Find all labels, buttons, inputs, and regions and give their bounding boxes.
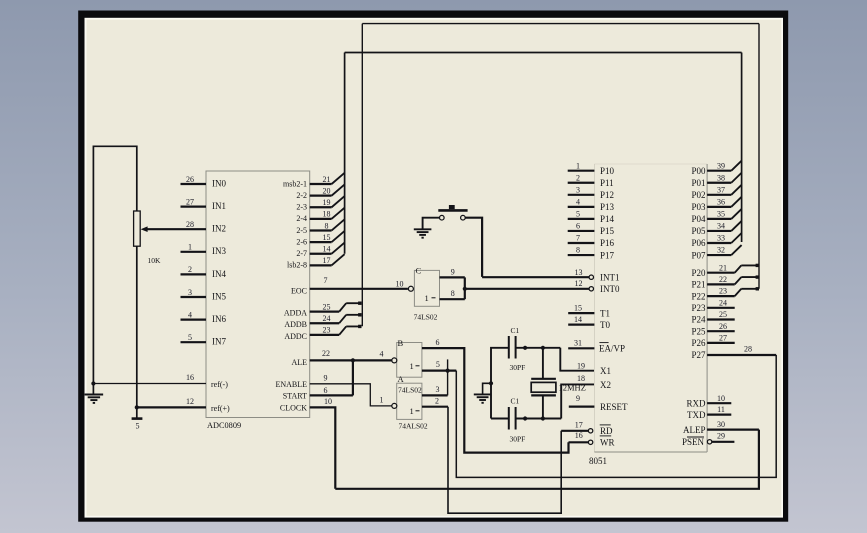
svg-text:1: 1: [425, 293, 429, 303]
svg-text:19: 19: [323, 198, 331, 207]
ADC0809 data pin 8 2-5 with bus entry: [296, 219, 344, 235]
gate U2C input pin 9: [440, 267, 465, 277]
ADC0809 pin 12 ref(+) wire: [137, 397, 230, 413]
svg-text:28: 28: [186, 220, 194, 229]
ADC0809 pin 2 IN4: [181, 265, 227, 279]
svg-text:P20: P20: [691, 268, 706, 278]
8051 pin 8 P17: [568, 246, 615, 261]
svg-text:14: 14: [574, 315, 582, 324]
ground G2 at button: [414, 229, 432, 237]
junction top rail a: [523, 346, 527, 350]
svg-text:P27: P27: [691, 350, 706, 360]
svg-text:RXD: RXD: [686, 398, 706, 408]
svg-text:8: 8: [576, 246, 580, 255]
power +5 bar: [132, 407, 143, 430]
wire gate C inputs tie: [464, 277, 466, 299]
wire pot bottom to ref(+): [136, 246, 138, 407]
schematic sheet white inner edge: [85, 18, 784, 518]
ADC0809 pin 5 IN7: [181, 333, 227, 347]
svg-text:P17: P17: [600, 250, 615, 260]
wire CLOCK to 8051 ALE/P bottom run: [335, 430, 759, 489]
svg-text:2-2: 2-2: [296, 191, 307, 200]
svg-text:IN5: IN5: [212, 291, 226, 301]
junction pin5 stub: [446, 369, 450, 373]
svg-text:39: 39: [717, 161, 725, 170]
svg-text:6: 6: [576, 222, 580, 231]
wire pin2 to RD: [448, 407, 561, 514]
svg-text:5: 5: [576, 210, 580, 219]
svg-text:ADDC: ADDC: [284, 332, 307, 341]
svg-text:P13: P13: [600, 202, 615, 212]
8051 pin 26 P25: [691, 322, 734, 337]
ADC0809 pin 10 CLOCK wire: [280, 397, 335, 489]
junction bottom rail a: [523, 416, 527, 420]
junction ref(+): [135, 405, 139, 409]
svg-text:26: 26: [186, 175, 194, 184]
svg-text:25: 25: [323, 302, 331, 311]
8051 pin 29 PSEN: [682, 431, 734, 447]
svg-text:34: 34: [717, 222, 725, 231]
wire pin5 to P27: [456, 355, 776, 477]
svg-text:36: 36: [717, 197, 725, 206]
svg-text:5: 5: [188, 333, 192, 342]
svg-text:17: 17: [323, 256, 331, 265]
svg-text:P06: P06: [691, 238, 706, 248]
svg-text:EOC: EOC: [291, 287, 307, 296]
8051 pin 31 EA/VP: [568, 339, 625, 354]
svg-text:3: 3: [576, 185, 580, 194]
data bus top rail: [345, 52, 742, 54]
svg-text:P02: P02: [691, 190, 705, 200]
svg-text:30PF: 30PF: [510, 363, 526, 372]
8051 data pin 37 P02 with bus entry: [691, 185, 741, 200]
svg-text:1: 1: [410, 406, 414, 416]
svg-text:2: 2: [435, 397, 439, 406]
svg-text:lsb2-8: lsb2-8: [287, 261, 307, 270]
svg-text:13: 13: [575, 268, 583, 277]
crystal Y1 12MHZ: [531, 379, 586, 396]
8051 pin 16 WR: [569, 431, 615, 448]
8051 pin 28 P27 wire: [691, 345, 776, 361]
svg-text:20: 20: [323, 186, 331, 195]
svg-text:INT0: INT0: [600, 284, 620, 294]
8051 pin 13 INT1: [575, 268, 620, 283]
ADC0809 pin 9 ENABLE wire to gate A output: [275, 374, 391, 406]
svg-text:10K: 10K: [148, 256, 162, 265]
svg-text:T0: T0: [600, 320, 610, 330]
svg-text:8: 8: [325, 221, 329, 230]
svg-text:5: 5: [436, 360, 440, 369]
ADC0809 data pin 18 2-4 with bus entry: [296, 208, 344, 224]
wire button right to INT1: [465, 218, 482, 277]
svg-text:10: 10: [396, 280, 404, 289]
svg-text:33: 33: [717, 234, 725, 243]
svg-text:2: 2: [188, 265, 192, 274]
svg-text:35: 35: [717, 210, 725, 219]
svg-text:P03: P03: [691, 202, 706, 212]
svg-text:TXD: TXD: [687, 410, 706, 420]
wire INT0 to 8051: [465, 288, 589, 290]
svg-text:P07: P07: [691, 250, 706, 260]
svg-text:7: 7: [576, 234, 580, 243]
svg-text:23: 23: [719, 287, 727, 296]
svg-text:23: 23: [323, 326, 331, 335]
ADC0809 address pin 25 ADDA with bus entry: [284, 302, 362, 318]
svg-text:ref(+): ref(+): [211, 404, 230, 413]
wire pot top to ground rail: [93, 146, 136, 394]
svg-text:RESET: RESET: [600, 402, 628, 412]
svg-text:9: 9: [576, 394, 580, 403]
svg-text:WR: WR: [600, 438, 615, 448]
svg-text:27: 27: [719, 334, 727, 343]
8051 pin 24 P23: [691, 298, 734, 313]
svg-text:P05: P05: [691, 226, 706, 236]
8051 data pin 33 P06 with bus entry: [691, 233, 741, 248]
IC U1 ADC0809 body: [206, 171, 310, 418]
svg-text:IN0: IN0: [212, 178, 226, 188]
svg-text:P23: P23: [691, 303, 706, 313]
junction osc ground: [489, 381, 493, 385]
svg-text:IN3: IN3: [212, 246, 226, 256]
svg-text:RD: RD: [600, 426, 613, 436]
wire X1 to 8051: [560, 348, 594, 371]
gate U2B 74LS02 body: [397, 338, 422, 377]
svg-text:18: 18: [323, 210, 331, 219]
potentiometer R1 body: [134, 211, 141, 246]
svg-text:3: 3: [436, 385, 440, 394]
svg-text:21: 21: [323, 175, 331, 184]
svg-text:P16: P16: [600, 238, 615, 248]
svg-text:25: 25: [719, 310, 727, 319]
capacitor C1 bottom 30PF: [509, 397, 526, 444]
junction bottom rail b: [541, 416, 545, 420]
svg-text:14: 14: [323, 245, 331, 254]
svg-text:32: 32: [717, 246, 725, 255]
junction top rail b: [541, 346, 545, 350]
8051 pin 5 P14: [568, 210, 615, 225]
svg-text:ENABLE: ENABLE: [275, 380, 307, 389]
svg-text:7: 7: [324, 276, 328, 285]
ADC0809 address pin 24 ADDB with bus entry: [284, 313, 361, 329]
8051 data pin 34 P05 with bus entry: [691, 221, 741, 236]
svg-text:IN7: IN7: [212, 337, 226, 347]
svg-text:C: C: [416, 266, 422, 276]
gate U2C input pin 8: [440, 289, 465, 299]
svg-text:P12: P12: [600, 190, 614, 200]
svg-text:P11: P11: [600, 178, 614, 188]
svg-text:P10: P10: [600, 166, 615, 176]
svg-text:IN6: IN6: [212, 314, 226, 324]
8051 pin 27 P26: [691, 334, 734, 349]
8051 data pin 39 P00 with bus entry: [691, 161, 741, 176]
svg-text:PSEN: PSEN: [682, 437, 705, 447]
svg-text:P14: P14: [600, 214, 615, 224]
gate U2B input pin 6 wire to WR: [422, 338, 569, 453]
svg-text:1: 1: [188, 243, 192, 252]
svg-text:2-5: 2-5: [296, 226, 307, 235]
svg-text:ADDA: ADDA: [284, 309, 307, 318]
ADC0809 pin 28 IN2: [186, 220, 226, 234]
svg-text:8051: 8051: [589, 456, 607, 466]
svg-text:P24: P24: [691, 315, 706, 325]
address bus left vertical: [361, 24, 363, 327]
svg-text:B: B: [398, 338, 404, 348]
wire INT1 to 8051: [482, 276, 589, 278]
schematic sheet paper: [87, 20, 782, 516]
svg-text:EA/VP: EA/VP: [599, 344, 625, 354]
gate U2A input pin 3: [422, 385, 448, 395]
svg-text:3: 3: [188, 288, 192, 297]
svg-text:6: 6: [324, 386, 328, 395]
svg-text:P01: P01: [691, 178, 705, 188]
svg-text:1: 1: [576, 161, 580, 170]
8051 pin 18 X2: [577, 374, 611, 390]
svg-text:P15: P15: [600, 226, 615, 236]
push button S1: [438, 205, 467, 220]
gate U2A output bubble pin 1: [380, 396, 397, 409]
8051 pin 19 X1: [577, 361, 611, 376]
svg-text:31: 31: [574, 339, 582, 348]
8051 pin 3 P12: [568, 185, 614, 200]
wire osc to ground: [483, 383, 491, 394]
svg-text:10: 10: [717, 394, 725, 403]
wire ALE to START tie: [352, 360, 354, 395]
svg-text:2: 2: [576, 173, 580, 182]
svg-text:9: 9: [451, 267, 455, 276]
ground G1: [85, 395, 104, 403]
8051 pin 25 P24: [691, 310, 734, 325]
svg-text:1: 1: [410, 361, 414, 371]
IC U3 8051 body: [594, 164, 707, 452]
svg-text:X2: X2: [600, 380, 611, 390]
svg-text:CLOCK: CLOCK: [280, 404, 307, 413]
svg-text:10: 10: [324, 397, 332, 406]
capacitor C1 top 30PF: [509, 326, 526, 372]
svg-text:74ALS02: 74ALS02: [399, 422, 428, 431]
ADC0809 data pin 14 2-7 with bus entry: [296, 243, 344, 258]
svg-text:38: 38: [717, 173, 725, 182]
svg-text:12: 12: [186, 397, 194, 406]
svg-text:1: 1: [380, 396, 384, 405]
svg-text:74LS02: 74LS02: [414, 313, 438, 322]
svg-text:X1: X1: [600, 366, 611, 376]
gate U2A label 74ALS02: [399, 422, 428, 431]
ADC0809 data pin 21 msb2-1 with bus entry: [283, 173, 345, 189]
ADC0809 data pin 19 2-3 with bus entry: [296, 196, 344, 212]
junction gate C inputs / INT0: [463, 287, 467, 291]
svg-text:18: 18: [577, 374, 585, 383]
IC U3 label 8051: [589, 456, 607, 466]
gate U2B output bubble pin 4: [380, 350, 397, 363]
schematic sheet black frame: [78, 11, 788, 522]
svg-text:IN4: IN4: [212, 269, 226, 279]
svg-text:16: 16: [186, 373, 194, 382]
8051 pin 6 P15: [568, 222, 615, 237]
8051 pin 21 P20 with bus entry: [691, 263, 759, 278]
gate U2B input pin 5: [422, 360, 456, 371]
ADC0809 pin 4 IN6: [181, 310, 227, 324]
svg-text:16: 16: [575, 431, 583, 440]
svg-text:START: START: [283, 392, 307, 401]
svg-text:msb2-1: msb2-1: [283, 179, 307, 188]
ADC data bus vertical: [344, 53, 346, 254]
svg-text:INT1: INT1: [600, 273, 620, 283]
svg-text:8: 8: [451, 289, 455, 298]
svg-text:5: 5: [136, 422, 140, 431]
svg-text:4: 4: [188, 310, 192, 319]
svg-text:28: 28: [744, 345, 752, 354]
svg-text:2-6: 2-6: [296, 237, 307, 246]
ground G3 at oscillator: [474, 394, 492, 402]
wire button left to ground: [423, 218, 440, 229]
svg-text:30: 30: [717, 420, 725, 429]
wire bottom rail: [491, 418, 561, 420]
gate U2C 74LS02 body: [414, 266, 439, 307]
8051 pin 1 P10: [568, 161, 615, 176]
svg-text:P00: P00: [691, 166, 706, 176]
address bus top rail: [362, 23, 759, 25]
svg-text:6: 6: [436, 338, 440, 347]
svg-text:24: 24: [719, 298, 727, 307]
ADC0809 pin 16 ref(-) wire: [93, 373, 228, 389]
svg-text:15: 15: [323, 233, 331, 242]
ADC0809 pin 3 IN5: [181, 288, 227, 302]
svg-text:P26: P26: [691, 338, 706, 348]
svg-text:C1: C1: [511, 397, 520, 406]
svg-text:IN1: IN1: [212, 201, 226, 211]
8051 pin 2 P11: [568, 173, 614, 188]
IC U1 label ADC0809: [207, 421, 241, 430]
ADC0809 data pin 20 2-2 with bus entry: [296, 184, 344, 200]
wire tie pin5 to pin3 stub: [447, 359, 449, 395]
svg-text:37: 37: [717, 185, 725, 194]
svg-text:ADDB: ADDB: [284, 320, 307, 329]
svg-text:30PF: 30PF: [510, 435, 526, 444]
8051 data pin 38 P01 with bus entry: [691, 173, 741, 188]
svg-text:15: 15: [574, 303, 582, 312]
svg-text:IN2: IN2: [212, 224, 226, 234]
svg-text:17: 17: [575, 421, 583, 430]
8051 pin 12 INT0: [575, 279, 620, 294]
svg-text:22: 22: [719, 275, 727, 284]
8051 data pin 35 P04 with bus entry: [691, 209, 741, 224]
gate U2A 74LS02 body: [397, 374, 422, 420]
wire X2 to 8051: [561, 384, 594, 418]
8051 pin 22 P21 with bus entry: [691, 275, 759, 290]
svg-text:ALEP: ALEP: [683, 425, 706, 435]
svg-text:24: 24: [323, 314, 331, 323]
ADC0809 pin 7 EOC wire to gate C output: [291, 276, 408, 295]
svg-text:2-7: 2-7: [296, 249, 307, 258]
svg-text:P25: P25: [691, 326, 706, 336]
svg-text:ADC0809: ADC0809: [207, 421, 241, 430]
wire IN2 to pot wiper with arrow: [141, 226, 206, 232]
8051 pin 30 ALE/P wire: [683, 420, 759, 435]
junction ALE/START: [351, 358, 355, 362]
ADC0809 pin 27 IN1: [181, 197, 227, 211]
8051 pin 23 P22 with bus entry: [691, 287, 759, 302]
gate U2C output bubble pin 10: [396, 280, 414, 292]
ADC0809 data pin 15 2-6 with bus entry: [296, 231, 344, 247]
svg-text:4: 4: [576, 197, 580, 206]
8051 pin 10 RXD: [686, 394, 731, 409]
svg-text:ALE: ALE: [291, 358, 307, 367]
8051 pin 4 P13: [568, 197, 615, 212]
ADC0809 pin 1 IN3: [181, 243, 227, 257]
svg-text:P04: P04: [691, 214, 706, 224]
svg-text:22: 22: [322, 349, 330, 358]
svg-text:P21: P21: [691, 280, 705, 290]
svg-text:T1: T1: [600, 308, 610, 318]
svg-text:4: 4: [380, 350, 384, 359]
svg-text:C1: C1: [511, 326, 520, 335]
8051 pin 9 RESET: [569, 394, 628, 412]
svg-text:P22: P22: [691, 291, 705, 301]
ADC0809 pin 26 IN0: [181, 175, 227, 189]
8051 pin 11 TXD: [687, 405, 731, 420]
gate U2A input pin 2: [422, 397, 448, 407]
svg-text:11: 11: [717, 405, 725, 414]
8051 pin 7 P16: [568, 234, 615, 249]
svg-text:26: 26: [719, 322, 727, 331]
svg-text:12: 12: [575, 279, 583, 288]
ADC0809 pin 22 ALE wire to gate B output: [291, 349, 391, 367]
wire crystal bottom: [542, 395, 544, 418]
8051 data pin 36 P03 with bus entry: [691, 197, 741, 212]
svg-text:27: 27: [186, 197, 194, 206]
ADC0809 address pin 23 ADDC with bus entry: [284, 325, 361, 341]
ADC0809 pin 6 START wire: [283, 386, 353, 401]
svg-text:2-3: 2-3: [296, 203, 307, 212]
ADC0809 data pin 17 lsb2-8 with bus entry: [287, 254, 345, 270]
wire crystal top: [542, 348, 544, 379]
8051 pin 14 T0: [568, 315, 610, 330]
svg-text:21: 21: [719, 263, 727, 272]
svg-text:ref(-): ref(-): [211, 380, 228, 389]
svg-text:19: 19: [577, 361, 585, 370]
8051 pin 15 T1: [568, 303, 610, 318]
potentiometer R1 label 10K: [148, 256, 162, 265]
8051 data pin 32 P07 with bus entry: [691, 245, 741, 260]
svg-text:2-4: 2-4: [296, 214, 307, 223]
svg-text:A: A: [398, 374, 405, 384]
junction ref(-) / ground wire: [91, 381, 95, 385]
wire X1 top rail: [491, 348, 560, 419]
svg-text:9: 9: [324, 374, 328, 383]
svg-text:74LS02: 74LS02: [398, 386, 422, 395]
address bus right vertical: [758, 24, 760, 289]
data bus right vertical: [741, 53, 743, 243]
svg-text:29: 29: [717, 431, 725, 440]
gate U2C label 74LS02: [414, 313, 438, 322]
8051 pin 17 RD: [561, 421, 613, 437]
